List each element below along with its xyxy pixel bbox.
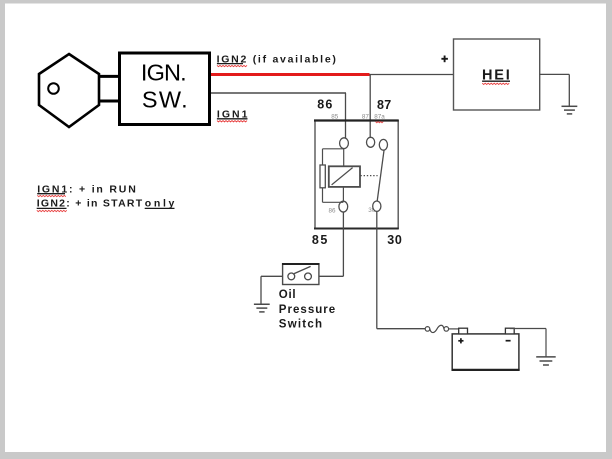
wire IGN2 (red) from switch to node above relay pin 87 xyxy=(211,73,370,76)
relay pin oval 87a xyxy=(379,139,387,150)
wire from node to HEI + xyxy=(370,74,454,76)
wire relay pin 30 down to fuse xyxy=(376,212,378,329)
oil switch contact circles xyxy=(288,273,295,280)
key (ignition key head) xyxy=(39,54,99,127)
battery terminal + tab xyxy=(459,328,468,334)
ground (battery) xyxy=(536,357,556,365)
wire resistor branch lower vertical xyxy=(322,188,324,203)
relay coil diagonal xyxy=(332,168,353,185)
relay K1 box xyxy=(315,121,398,229)
battery + sign xyxy=(458,338,463,343)
wire top horizontal to resistor branch xyxy=(323,148,344,150)
svg-text:30: 30 xyxy=(387,233,402,247)
svg-text:86: 86 xyxy=(317,98,332,112)
svg-text:85: 85 xyxy=(331,114,339,121)
svg-text:Oil: Oil xyxy=(279,289,296,301)
wire down to relay pin 87 xyxy=(369,75,371,139)
svg-text:87a: 87a xyxy=(374,114,385,121)
relay pin oval 85 (bottom left) xyxy=(339,201,348,212)
relay coil box xyxy=(329,166,360,187)
wire bottom horizontal to oval 85 xyxy=(323,201,344,203)
fuse / circuit breaker xyxy=(425,327,430,332)
wire down to relay pin 86 xyxy=(345,93,347,139)
svg-text:87: 87 xyxy=(362,114,370,121)
svg-text:Pressure: Pressure xyxy=(279,304,335,316)
wire battery - to ground xyxy=(510,328,546,330)
ground (oil pressure switch) xyxy=(254,304,270,312)
wire coil bottom to oval 85 xyxy=(342,187,344,201)
relay coil wiring xyxy=(323,149,344,203)
battery - sign xyxy=(506,340,511,342)
battery terminal - tab xyxy=(505,328,514,334)
relay box bottom edge (heavier) xyxy=(314,228,399,230)
svg-text:SW.: SW. xyxy=(142,86,188,112)
ground (HEI) xyxy=(562,106,578,114)
key blade connector xyxy=(99,76,120,101)
svg-text:86: 86 xyxy=(328,207,336,214)
relay switch arm 87a to 30 xyxy=(377,150,384,201)
wire fuse to battery + xyxy=(449,328,459,330)
battery body xyxy=(452,334,519,370)
battery bottom edge (heavier) xyxy=(452,369,520,371)
relay pin oval 87 xyxy=(367,137,375,147)
relay pin oval 30 (bottom right) xyxy=(373,201,381,211)
wire IGN1 from switch xyxy=(211,92,346,94)
HEI module box xyxy=(454,39,540,110)
relay resistor (parallel element) xyxy=(320,165,325,188)
wire HEI to ground xyxy=(540,73,570,75)
wire resistor branch upper vertical xyxy=(322,149,324,165)
oil pressure switch box xyxy=(283,264,319,285)
svg-text:85: 85 xyxy=(312,233,327,247)
wire oil switch to ground xyxy=(261,275,283,277)
relay actuator dotted link xyxy=(360,175,377,177)
relay pin oval 86 xyxy=(340,138,349,149)
ignition switch box IGN.SW. xyxy=(120,53,210,125)
oil switch arm xyxy=(294,266,311,273)
wire oval86 to coil top xyxy=(343,149,345,167)
svg-text:87: 87 xyxy=(377,98,391,112)
svg-text:IGN.: IGN. xyxy=(141,59,187,85)
svg-text:Switch: Switch xyxy=(279,319,322,331)
wire relay pin 85 down to oil pressure switch xyxy=(342,212,344,276)
relay box top edge (heavier) xyxy=(314,119,399,121)
plus label at HEI input xyxy=(441,56,448,63)
